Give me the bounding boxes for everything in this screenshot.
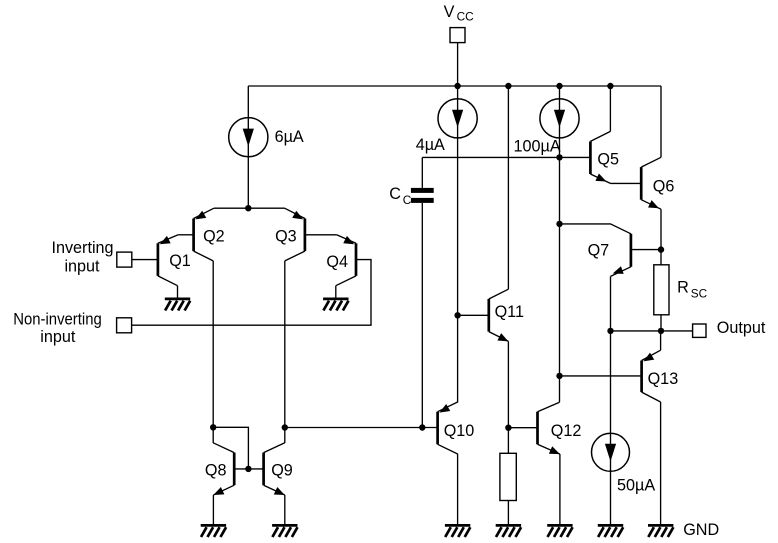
- svg-text:V: V: [444, 3, 455, 21]
- svg-text:Non-inverting: Non-inverting: [13, 310, 102, 328]
- svg-text:C: C: [403, 193, 412, 207]
- svg-text:SC: SC: [691, 286, 708, 300]
- svg-text:Q4: Q4: [326, 253, 348, 271]
- svg-text:CC: CC: [457, 9, 475, 23]
- svg-text:6µA: 6µA: [275, 128, 304, 146]
- svg-text:Output: Output: [717, 319, 766, 337]
- svg-text:Inverting: Inverting: [51, 239, 113, 257]
- svg-text:Q7: Q7: [588, 241, 610, 259]
- svg-text:Q1: Q1: [169, 252, 191, 270]
- svg-text:Q10: Q10: [444, 422, 475, 440]
- svg-text:input: input: [64, 258, 100, 276]
- svg-text:C: C: [389, 185, 401, 203]
- svg-text:4µA: 4µA: [416, 136, 445, 154]
- svg-text:Q2: Q2: [203, 228, 225, 246]
- svg-text:Q8: Q8: [205, 462, 227, 480]
- svg-text:GND: GND: [683, 521, 719, 539]
- svg-text:Q5: Q5: [597, 150, 619, 168]
- svg-text:Q9: Q9: [271, 462, 293, 480]
- svg-text:100µA: 100µA: [514, 138, 561, 156]
- svg-text:Q12: Q12: [551, 422, 582, 440]
- svg-text:Q6: Q6: [653, 178, 675, 196]
- svg-text:Q3: Q3: [275, 228, 297, 246]
- svg-text:input: input: [40, 328, 76, 346]
- svg-text:Q11: Q11: [495, 303, 524, 321]
- svg-text:Q13: Q13: [648, 370, 679, 388]
- svg-text:R: R: [677, 278, 689, 296]
- svg-text:50µA: 50µA: [617, 477, 655, 495]
